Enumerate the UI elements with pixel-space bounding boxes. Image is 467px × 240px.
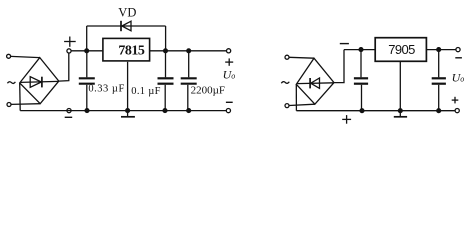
node: output junction top (2200uF) (187, 49, 191, 53)
node: bottom junction ground pin (126, 109, 130, 113)
node top cap1 (359, 48, 363, 52)
wire T3 to bridge top corner (289, 56, 314, 59)
node: bottom junction 0.33uF (85, 109, 89, 113)
diode inside bridge B1 (21, 77, 59, 88)
output terminal top-right (left circuit) (227, 49, 231, 53)
capacitor C1 0.33uF (79, 51, 95, 111)
terminal T3 (AC input, top-left) (285, 55, 289, 59)
capacitor C5 (output, right circuit) (432, 50, 446, 111)
diode VD (protection) (121, 21, 131, 31)
top rail (+) left of box (71, 50, 102, 52)
ground symbol right (394, 111, 407, 117)
terminal T4 (AC input, bottom-left) (285, 104, 289, 108)
regulator U2 7905 box (375, 38, 426, 62)
wire VD bypass right vertical (165, 26, 167, 51)
diode inside bridge B2 (points left) (297, 78, 333, 88)
svg-text:0.1 µF: 0.1 µF (131, 86, 160, 97)
wire bridge B2 east corner up to top rail (334, 50, 344, 83)
output terminal bottom-right (left circuit) (226, 109, 230, 113)
wire VD bypass left vertical (86, 26, 88, 51)
node: input junction top (85, 49, 89, 53)
top rail (+) right of box (150, 50, 227, 52)
svg-text:Uo: Uo (452, 71, 465, 85)
+ label output right (452, 97, 459, 104)
regulator U1 7815 box (103, 38, 150, 61)
bridge rectifier B2 (diamond) (296, 58, 334, 104)
wire VD bypass horizontal (87, 25, 166, 27)
- label output (226, 101, 233, 103)
output terminal top-right (right circuit) (456, 48, 460, 52)
wire bridge plus (east corner) to + terminal (59, 53, 69, 81)
svg-text:VD: VD (118, 6, 136, 20)
ground symbol (121, 111, 135, 117)
svg-text:7815: 7815 (118, 44, 144, 59)
wire bridge minus (west corner) down to bottom rail (19, 83, 22, 111)
svg-text:Uo: Uo (223, 68, 236, 82)
wire bridge B2 west corner down to bottom rail (295, 84, 297, 110)
wire T1 to bridge top corner (11, 56, 40, 57)
top rail (right circuit) right of box (426, 49, 456, 51)
wire T2 to bridge bottom corner (11, 103, 40, 106)
svg-text:7905: 7905 (388, 42, 415, 57)
node top cap2 (437, 48, 441, 52)
+ label at bridge B2 output (bottom) (342, 115, 351, 124)
+ label at bridge output (64, 37, 76, 47)
bottom rail (right circuit) (296, 110, 455, 112)
svg-text:2200µF: 2200µF (191, 84, 225, 96)
capacitor C4 (input, right circuit) (354, 50, 368, 111)
ground pin of 7905 (399, 61, 401, 110)
- label at bridge output (65, 116, 73, 118)
node: bottom junction 0.1uF (163, 109, 167, 113)
+ label output (225, 58, 233, 65)
svg-text:0.33 µF: 0.33 µF (88, 84, 124, 95)
node bottom pin (398, 109, 402, 113)
terminal T1 (AC input, top-left) (7, 54, 11, 58)
output terminal bottom-right (right circuit) (455, 109, 459, 113)
bottom rail (-) (20, 110, 226, 112)
node bottom cap1 (360, 109, 364, 113)
- output terminal of bridge (on bottom rail) (67, 109, 71, 113)
top rail (right circuit) left of box (344, 49, 375, 51)
capacitor C3 2200uF (181, 51, 197, 111)
node bottom cap2 (437, 109, 441, 113)
node: bottom junction 2200uF (187, 109, 191, 113)
~ label (AC) (7, 82, 15, 84)
~ label (AC) right circuit (281, 82, 289, 84)
terminal T2 (AC input, bottom-left) (7, 103, 11, 107)
+ output terminal of bridge (67, 49, 71, 53)
- label at bridge B2 output (top) (340, 43, 349, 45)
capacitor C2 0.1uF (158, 51, 174, 111)
- label output right (455, 57, 462, 59)
ground pin of 7815 (127, 62, 129, 111)
bridge rectifier B1 (diamond) (20, 58, 59, 104)
node: output junction top (0.1uF) (164, 49, 168, 53)
wire T4 to bridge bottom corner (289, 104, 315, 105)
